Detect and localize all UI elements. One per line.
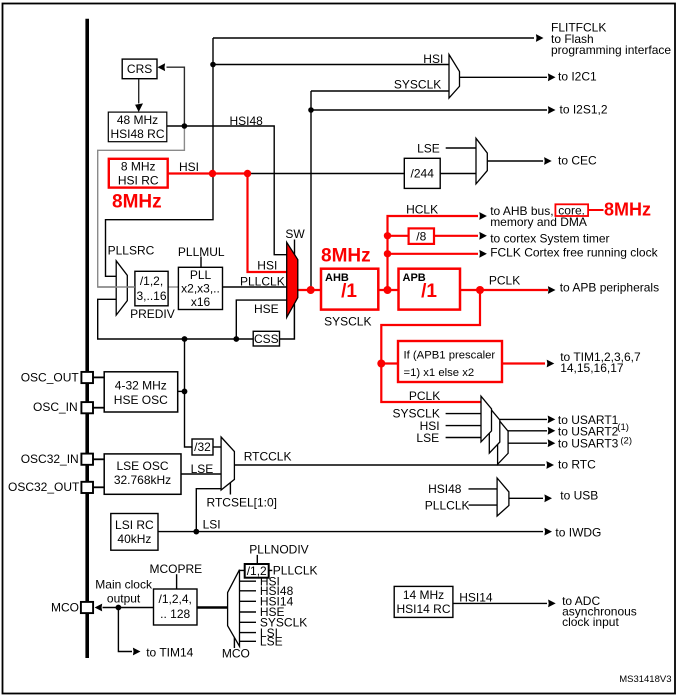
wire MCO divider to pin <box>103 607 154 609</box>
svg-text:HSI48 RC: HSI48 RC <box>110 127 164 141</box>
svg-text:HSI48: HSI48 <box>428 482 462 496</box>
wire SW mux output to AHB <box>298 289 321 291</box>
wire LSE to USART mux <box>446 437 481 439</box>
box LSE OSC <box>104 454 181 494</box>
box AHB prescaler (red) <box>321 269 378 310</box>
arrow into CRS <box>158 63 166 71</box>
wire HSI48 input MCO mux <box>240 590 257 592</box>
svg-text:(2): (2) <box>620 435 632 446</box>
box /8 (red) <box>409 228 434 244</box>
node FCLK red junction <box>384 250 391 257</box>
mux RTC <box>221 437 234 490</box>
svg-text:programming interface: programming interface <box>551 43 671 57</box>
arrow to USART1 <box>548 416 556 424</box>
wire /244 to CEC mux <box>440 173 476 175</box>
wire to /8 <box>388 235 409 237</box>
svg-text:HSI14: HSI14 <box>459 591 493 605</box>
mux PLLSRC <box>116 261 127 315</box>
arrow to TIM14 <box>133 648 141 656</box>
svg-text:HSI14 RC: HSI14 RC <box>396 602 450 616</box>
wire USB mux output <box>509 497 543 499</box>
svg-text:output: output <box>107 591 141 605</box>
node HCLK red junction <box>384 286 392 294</box>
svg-text:8MHz: 8MHz <box>112 192 162 213</box>
svg-text:HSI: HSI <box>179 160 199 174</box>
wire HSI vertical trunk to FLITFCLK and PLLSRC <box>106 38 214 276</box>
svg-text:=1) x1 else x2: =1) x1 else x2 <box>404 367 475 379</box>
arrow CRS to HSI48 RC <box>134 103 143 112</box>
wire HSI to USART mux <box>446 425 481 427</box>
svg-text:to I2S1,2: to I2S1,2 <box>560 102 608 116</box>
wire HSI48 output to SW mux <box>167 126 287 255</box>
node HSI/I2C junction <box>210 62 216 68</box>
arrow to USART2 <box>548 427 556 435</box>
wire PCLK to USART mux (red) <box>381 364 481 403</box>
wire LSE to CEC mux <box>446 147 476 149</box>
wire /8 to cortex timer <box>434 235 478 237</box>
wire SW label stub <box>294 240 296 255</box>
svg-text:40kHz: 40kHz <box>117 532 151 546</box>
svg-text:HSI: HSI <box>257 259 277 273</box>
svg-text:/1: /1 <box>421 281 437 302</box>
pin OSC_OUT <box>81 372 93 383</box>
svg-text:32.768kHz: 32.768kHz <box>114 473 171 487</box>
wire PLLCLK to MCO mux <box>240 569 273 571</box>
node HSE line junction 2 <box>233 336 239 342</box>
svg-text:CSS: CSS <box>254 332 279 346</box>
svg-text:SW: SW <box>285 227 305 241</box>
wire PCLK from APB <box>460 289 548 291</box>
svg-text:3,..16: 3,..16 <box>136 289 166 303</box>
svg-text:SYSCLK: SYSCLK <box>324 315 371 329</box>
svg-text:HSE: HSE <box>254 302 279 316</box>
wire SYSCLK to I2C mux <box>311 90 449 92</box>
box LSI RC <box>111 514 158 551</box>
arrow into MCO pin <box>95 604 103 612</box>
svg-text:/1,2,: /1,2, <box>140 274 163 288</box>
arrow to I2S1,2 <box>548 106 556 114</box>
wire MCOPRE stub <box>176 574 178 589</box>
wire HSI48 to USB mux <box>469 488 498 490</box>
pin OSC32_OUT <box>81 482 93 493</box>
svg-text:PREDIV: PREDIV <box>130 307 175 321</box>
svg-text:4-32 MHz: 4-32 MHz <box>115 378 167 392</box>
wire CEC mux output <box>487 160 543 162</box>
box /32 <box>192 439 213 455</box>
wire /32 to RTC mux <box>213 446 221 448</box>
svg-text:LSE: LSE <box>417 141 440 155</box>
mux USB <box>497 478 509 516</box>
svg-text:FCLK Cortex free running clock: FCLK Cortex free running clock <box>490 246 658 260</box>
svg-text:PCLK: PCLK <box>409 389 440 403</box>
svg-text:HSI: HSI <box>423 52 443 66</box>
arrow FLITFCLK <box>536 34 544 42</box>
svg-text:OSC_IN: OSC_IN <box>33 400 78 414</box>
mux USART2 (middle) <box>489 407 500 453</box>
wire FLITFCLK <box>213 37 534 39</box>
wire CSS to SW mux <box>280 304 295 339</box>
svg-text:PLLCLK: PLLCLK <box>425 498 470 512</box>
svg-text:LSE OSC: LSE OSC <box>116 459 168 473</box>
wire SYSCLK input MCO mux <box>240 621 257 623</box>
svg-text:LSI: LSI <box>203 518 221 532</box>
mux MCO <box>228 570 240 647</box>
wire HSI48 to PLLSRC (gray) <box>98 126 185 287</box>
arrow to TIM1 group <box>547 360 555 368</box>
svg-text:to RTC: to RTC <box>558 458 596 472</box>
arrow to IWDG <box>544 528 552 536</box>
svg-text:to cortex System timer: to cortex System timer <box>490 231 609 245</box>
box HSE OSC <box>104 372 178 412</box>
wire LSI to IWDG <box>158 531 543 533</box>
svg-text:RTCSEL[1:0]: RTCSEL[1:0] <box>207 495 277 509</box>
svg-text:MS31418V3: MS31418V3 <box>619 674 671 685</box>
svg-text:14,15,16,17: 14,15,16,17 <box>560 361 624 375</box>
pin OSC32_IN <box>81 454 93 465</box>
svg-text:LSE: LSE <box>416 431 439 445</box>
svg-text:14 MHz: 14 MHz <box>403 588 444 602</box>
wire PREDIV to PLL (gray) <box>168 286 178 288</box>
svg-text:/1: /1 <box>341 281 357 302</box>
node PCLK red junction <box>476 286 484 294</box>
wire HSI14 input MCO mux <box>240 600 257 602</box>
svg-text:8MHz: 8MHz <box>604 199 651 219</box>
arrow to cortex System timer <box>479 232 487 240</box>
node SYSCLK red junction <box>307 286 315 294</box>
svg-text:8MHz: 8MHz <box>321 246 371 267</box>
svg-text:/244: /244 <box>411 167 435 181</box>
wire core box dash <box>588 209 603 211</box>
node HSI48/CRS junction <box>182 123 188 129</box>
node HSI red junction 1 <box>209 170 216 177</box>
wire PLLMUL label stub <box>200 257 202 268</box>
svg-text:CRS: CRS <box>127 62 152 76</box>
svg-text:(1): (1) <box>617 422 629 433</box>
mux USART1 (front) <box>481 396 492 442</box>
wire OSC_IN pin <box>93 407 104 409</box>
pin MCO <box>81 602 93 613</box>
svg-text:PCLK: PCLK <box>489 274 520 288</box>
wire HSI to I2C mux <box>213 64 449 66</box>
svg-text:to USART3: to USART3 <box>558 437 619 451</box>
box CSS <box>253 331 279 346</box>
wire OSC_OUT pin <box>93 376 104 378</box>
wire FCLK <box>388 253 479 255</box>
svg-text:If (APB1 prescaler: If (APB1 prescaler <box>404 350 496 362</box>
svg-text:.. 128: .. 128 <box>160 607 190 621</box>
node HSE OSC junction <box>182 389 188 395</box>
wire to TIM14 <box>118 608 132 652</box>
wire PLLNODIV stub <box>256 555 258 564</box>
wire HSI input MCO mux <box>240 580 257 582</box>
svg-text:MCO: MCO <box>51 601 79 615</box>
svg-text:to IWDG: to IWDG <box>555 526 601 540</box>
wire PCLK down to APB1 prescaler <box>381 290 480 364</box>
box 14 MHz HSI14 RC <box>394 586 453 617</box>
mux CEC <box>476 138 487 184</box>
wire LSE input MCO mux <box>240 640 257 642</box>
arrow to USART3 <box>548 439 556 447</box>
node MCO junction <box>116 605 122 611</box>
svg-text:PLLCLK: PLLCLK <box>240 274 285 288</box>
svg-text:LSE: LSE <box>260 635 283 649</box>
gray wire through PLLSRC mux <box>98 286 135 288</box>
svg-text:x16: x16 <box>191 295 211 309</box>
box /244 <box>404 158 440 188</box>
wire HSE lower branch to PLLSRC <box>98 299 254 339</box>
node APB1 prescaler red junction <box>377 360 385 368</box>
svg-text:to USB: to USB <box>560 489 598 503</box>
arrow to I2C1 <box>548 73 556 81</box>
wire USART1 output <box>492 418 548 420</box>
svg-text:Main clock: Main clock <box>95 578 153 592</box>
svg-text:to CEC: to CEC <box>558 154 597 168</box>
svg-text:to TIM14: to TIM14 <box>146 646 193 660</box>
wire MCO mux to divider (thick) <box>197 606 228 609</box>
wire HCLK <box>388 216 479 290</box>
node HSE line junction 1 <box>182 336 188 342</box>
wire to I2S1,2 <box>311 109 547 111</box>
box 48 MHz HSI48 RC <box>108 112 167 142</box>
wire HSE vertical to /32 <box>185 339 193 447</box>
node I2S junction <box>308 107 314 113</box>
svg-text:SYSCLK: SYSCLK <box>394 77 441 91</box>
svg-text:MCO: MCO <box>222 646 250 660</box>
mux SW (red fill) <box>287 242 298 317</box>
box APB1 prescaler condition (red) <box>398 341 502 382</box>
box core (red) <box>555 204 588 216</box>
wire AHB to APB <box>378 289 398 291</box>
svg-text:/1,2,4,: /1,2,4, <box>159 592 192 606</box>
box CRS <box>122 59 157 79</box>
mux I2C1 <box>449 55 460 99</box>
svg-text:OSC32_IN: OSC32_IN <box>21 452 79 466</box>
svg-text:x2,x3,..: x2,x3,.. <box>181 282 220 296</box>
wire OSC32_IN pin <box>93 458 104 460</box>
svg-text:/32: /32 <box>194 440 211 454</box>
wire RTCCLK to RTC <box>234 464 545 466</box>
svg-text:to APB peripherals: to APB peripherals <box>560 280 659 294</box>
svg-text:PLLSRC: PLLSRC <box>108 244 155 258</box>
svg-text:PLLNODIV: PLLNODIV <box>249 543 308 557</box>
wire CRS feedback loop <box>167 67 185 126</box>
wire PLLCLK to USB mux <box>469 504 498 506</box>
wire HSE to SW mux <box>236 300 286 339</box>
wire SYSCLK vertical trunk <box>310 91 312 290</box>
svg-text:MCOPRE: MCOPRE <box>150 562 203 576</box>
svg-text:PLL: PLL <box>190 268 212 282</box>
wire RTCSEL stub <box>229 483 231 495</box>
wire LSE to RTC mux <box>181 473 221 475</box>
svg-text:memory and DMA: memory and DMA <box>490 215 587 229</box>
svg-text:to I2C1: to I2C1 <box>558 70 597 84</box>
arrow to APB peripherals <box>548 286 556 294</box>
box /1,2 PLLNODIV <box>245 564 269 578</box>
arrow to ADC <box>548 600 556 608</box>
box 8 MHz HSI RC (red) <box>109 159 168 188</box>
wire HSI to /244 <box>248 173 405 175</box>
wire USART3 output <box>508 442 547 444</box>
wire OSC32_OUT pin <box>93 486 104 488</box>
svg-text:HSE OSC: HSE OSC <box>114 393 168 407</box>
svg-text:RTCCLK: RTCCLK <box>244 450 292 464</box>
box PLL <box>178 267 222 309</box>
pin OSC_IN <box>81 402 93 413</box>
wire LSI to RTC mux <box>196 489 221 532</box>
box PREDIV <box>135 271 168 306</box>
wire HSI14 to ADC <box>453 602 547 604</box>
arrow to CEC <box>544 157 552 165</box>
svg-text:48 MHz: 48 MHz <box>117 113 158 127</box>
wire PLLCLK to SW mux <box>223 286 287 288</box>
node HSI red junction 2 <box>244 170 251 177</box>
wire HSI (red) from HSI RC <box>168 174 287 273</box>
wire CRS to HSI48 RC <box>138 79 140 104</box>
svg-text:OSC32_OUT: OSC32_OUT <box>8 480 80 494</box>
arrow to RTC <box>546 461 554 469</box>
wire HSE OSC to vertical <box>178 390 185 392</box>
svg-text:HSI48: HSI48 <box>230 114 264 128</box>
node LSI junction <box>193 529 199 535</box>
node /8 red junction <box>384 232 391 239</box>
svg-text:HSI RC: HSI RC <box>118 174 159 188</box>
box APB prescaler (red) <box>399 269 461 310</box>
svg-text:8 MHz: 8 MHz <box>121 160 156 174</box>
chip boundary thick line <box>85 19 89 658</box>
wire LSI input MCO mux <box>240 632 257 634</box>
wire USART2 output <box>500 430 547 432</box>
svg-text:LSE: LSE <box>191 462 214 476</box>
wire MCO select stub <box>233 638 235 649</box>
svg-text:PLLMUL: PLLMUL <box>178 245 225 259</box>
box MCO prescaler <box>154 589 198 625</box>
wire I2C mux output <box>460 76 548 78</box>
wire APB1 prescaler output to TIM <box>502 362 545 364</box>
wire HSE input MCO mux <box>240 611 257 613</box>
svg-text:clock input: clock input <box>562 615 619 629</box>
arrow to USB <box>544 494 552 502</box>
mux USART3 (back) <box>498 419 509 465</box>
wire SYSCLK to USART mux <box>446 413 481 415</box>
arrow to AHB bus <box>479 212 487 220</box>
svg-text:/8: /8 <box>416 229 426 243</box>
svg-text:LSI RC: LSI RC <box>115 518 154 532</box>
svg-text:HCLK: HCLK <box>406 203 438 217</box>
svg-text:OSC_OUT: OSC_OUT <box>21 371 80 385</box>
arrow FCLK <box>479 250 487 258</box>
